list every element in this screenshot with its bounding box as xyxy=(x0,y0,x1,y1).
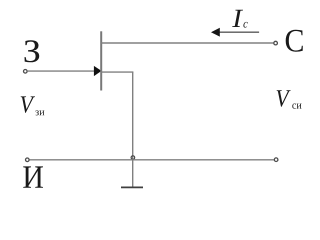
junction circle (source node) xyxy=(131,156,135,160)
current arrow Ic (line) xyxy=(218,31,259,33)
label V (of Vзи) xyxy=(21,96,35,113)
node И (source terminal label) xyxy=(23,166,43,187)
label си (subscript of Vси) xyxy=(292,104,301,109)
transistor Q1 channel bar xyxy=(100,31,102,90)
wire: drain lead xyxy=(101,42,273,44)
current arrowhead Ic xyxy=(211,28,220,37)
ground xyxy=(121,186,143,188)
label c (subscript of Ic) xyxy=(243,22,247,28)
wire: source lead vertical xyxy=(132,72,134,187)
label V (of Vси) xyxy=(277,90,291,107)
label зи (subscript of Vзи) xyxy=(35,110,44,115)
terminal circle (drain) xyxy=(274,41,278,45)
terminal circle (source, left) xyxy=(26,158,30,162)
label Ic (current symbol) xyxy=(232,10,243,27)
node З (gate terminal label) xyxy=(25,40,40,62)
node С (drain terminal label) xyxy=(286,30,303,52)
wire: source lead horizontal xyxy=(101,71,133,73)
terminal circle (bottom right) xyxy=(274,158,278,162)
terminal circle (gate) xyxy=(24,70,28,74)
wire: bottom rail xyxy=(30,159,274,161)
wire: gate lead xyxy=(28,70,95,72)
gate arrowhead (points into channel) xyxy=(94,66,102,76)
